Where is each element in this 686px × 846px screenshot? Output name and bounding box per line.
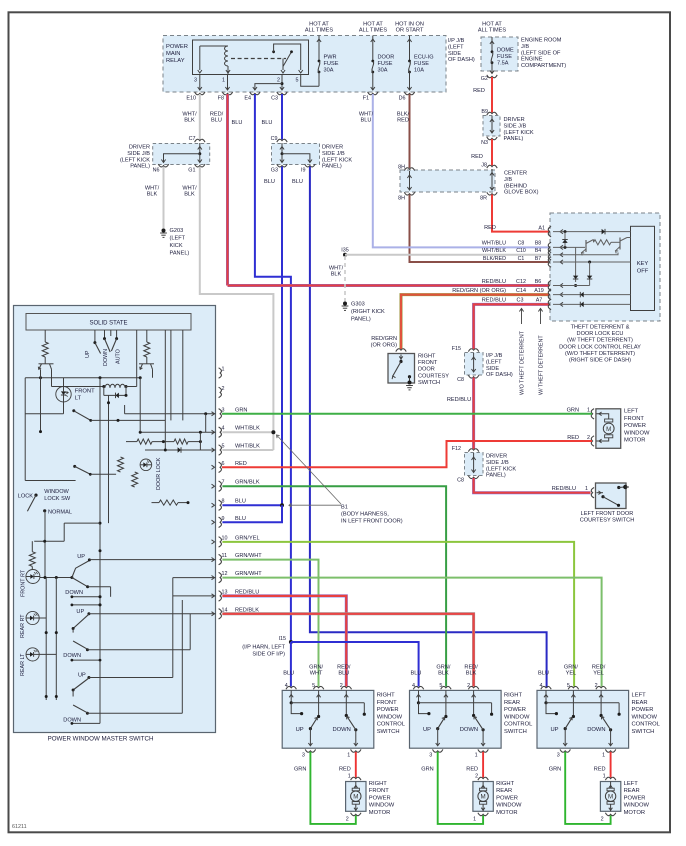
node I35 and WHT/BLK to theft deterrent B4 [341,247,551,256]
svg-text:DRIVER: DRIVER [129,145,150,151]
svg-text:A19: A19 [534,288,544,294]
connector F1 [363,92,378,102]
wire BLU I9 down to left rear switch [292,167,547,689]
svg-text:FUSE: FUSE [324,61,339,67]
transistor Q2 [139,364,154,378]
engine room J/B box [481,37,566,71]
svg-text:DOOR LOCK CONTROL RELAY: DOOR LOCK CONTROL RELAY [559,344,641,350]
svg-text:1: 1 [602,753,605,759]
svg-text:RED/GRN (OR ORG): RED/GRN (OR ORG) [452,288,506,294]
svg-text:RELAY: RELAY [166,58,185,64]
svg-text:BLK: BLK [466,671,477,677]
svg-text:UP: UP [423,727,431,733]
window lock switch upper contact [73,465,116,476]
svg-text:2: 2 [340,683,343,689]
bus x108 [107,395,110,523]
driver side J/B box left [120,143,210,170]
connector 8R [480,192,497,201]
left rear power window control switch [537,664,661,758]
svg-text:WINDOW: WINDOW [44,489,69,495]
svg-text:RED/BLU: RED/BLU [552,486,576,492]
resistor R8 [29,552,35,570]
svg-text:POWER: POWER [624,423,646,429]
svg-text:ALL TIMES: ALL TIMES [478,28,507,34]
svg-text:RED/BLU: RED/BLU [447,397,471,403]
svg-text:2: 2 [277,78,280,84]
svg-text:A1: A1 [538,226,545,232]
wire WHT/BLK G1 to master switch pins 4 and 5 [182,167,273,451]
solid state module box [26,314,191,331]
svg-text:ALL TIMES: ALL TIMES [359,28,388,34]
svg-text:CENTER: CENTER [504,171,527,177]
wire lock bus [32,523,100,552]
driver side J/B box F12 [452,446,517,484]
svg-text:NORMAL: NORMAL [48,510,72,516]
resistor R5 [118,457,124,472]
switch DOWN (auto group) [103,337,110,366]
I/P J/B (left side of dash) junction block box [163,36,475,93]
connector F8 [218,92,233,102]
right front power window control switch [282,664,406,758]
svg-text:YEL: YEL [566,671,577,677]
master switch pin 9 connector [212,516,225,528]
wire RED right rear switch to motor [466,752,483,778]
svg-text:1: 1 [348,774,351,780]
svg-text:RED/BLU: RED/BLU [482,298,506,304]
wire WHT/BLK N6 to ground G203 [145,167,164,229]
relay pin wires to connectors [198,75,319,91]
master pin 12 internal row [173,577,216,579]
svg-text:ENGINE: ENGINE [521,57,543,63]
svg-text:MOTOR: MOTOR [624,810,645,816]
indicator FRONT LT [25,378,95,414]
theft ECU row A1 internals [548,226,630,236]
svg-text:SIDE OF I/P): SIDE OF I/P) [252,652,285,658]
wire GRN left rear switch to motor [549,752,611,824]
svg-text:LEFT: LEFT [624,409,639,415]
svg-text:BLK: BLK [438,671,449,677]
svg-text:RED: RED [235,461,247,467]
svg-text:COURTESY: COURTESY [418,373,449,379]
right rear power window motor [473,774,522,823]
svg-text:RED: RED [397,118,409,124]
driver side J/B box right [483,116,534,143]
right front door courtesy switch [371,336,450,390]
svg-text:1: 1 [603,774,606,780]
svg-text:BLK/: BLK/ [397,112,410,118]
svg-text:GRN/WHT: GRN/WHT [235,553,262,559]
svg-text:RIGHT: RIGHT [377,693,395,699]
svg-text:2: 2 [595,683,598,689]
svg-text:FRONT RT: FRONT RT [21,569,27,597]
svg-text:F12: F12 [452,446,461,452]
svg-text:BLU: BLU [283,671,294,677]
wire GRN/WHT master pin 11 to right front switch pin 5 [222,560,318,687]
svg-text:5: 5 [296,78,299,84]
wire WHT/BLK I35 to ground G303 (dashed) [329,256,345,302]
svg-text:RED: RED [471,154,483,160]
fuse DOOR 30A [371,36,395,91]
svg-text:I/P J/B: I/P J/B [486,353,503,359]
svg-text:I9: I9 [301,168,306,174]
hot in on or start label [395,22,424,34]
svg-text:FRONT: FRONT [75,389,95,395]
svg-text:BLU: BLU [292,179,303,185]
svg-text:UP: UP [296,727,304,733]
svg-text:GRN: GRN [235,407,247,413]
svg-text:(RIGHT KICK: (RIGHT KICK [351,309,385,315]
svg-text:(LEFT KICK: (LEFT KICK [504,130,534,136]
svg-text:C14: C14 [516,288,526,294]
svg-text:COMPARTMENT): COMPARTMENT) [521,63,566,69]
svg-text:REAR: REAR [504,700,520,706]
switch UP front-rt [72,554,216,578]
svg-text:W/ THEFT DETERRENT: W/ THEFT DETERRENT [539,335,545,395]
connector E4 [244,92,260,102]
svg-text:C7: C7 [189,136,196,142]
svg-text:WINDOW: WINDOW [369,803,395,809]
svg-text:B8: B8 [535,241,541,247]
wire RED master pin6 to left front motor [222,441,592,467]
svg-text:HOT IN ON: HOT IN ON [395,22,424,28]
svg-text:2: 2 [346,817,349,823]
indicator DOOR LOCK [140,457,162,490]
svg-text:RED/: RED/ [464,664,478,670]
transistor Q1 [38,364,104,387]
svg-text:PANEL): PANEL) [486,473,506,479]
connector J8 [481,163,497,169]
resistor R1 [42,342,48,364]
theft ECU row B7 internals [548,257,630,267]
arrow w/ theft deterrent [538,309,544,396]
svg-text:3: 3 [429,753,432,759]
connector C9 [271,136,288,142]
svg-text:C8: C8 [457,478,464,484]
connector C7 [189,136,205,142]
svg-text:YEL: YEL [593,671,604,677]
svg-text:5: 5 [222,444,225,450]
indicator common row [40,576,74,700]
svg-text:FUSE: FUSE [378,61,393,67]
theft ECU row A7 internals [548,299,630,309]
svg-text:D6: D6 [399,96,406,102]
master pin 4 internal row [139,378,216,434]
svg-text:B7: B7 [535,256,541,262]
left front door courtesy switch [580,483,635,524]
svg-text:RED/BLU: RED/BLU [482,279,506,285]
svg-text:30A: 30A [324,67,334,73]
connector G2 [481,75,497,82]
relay pin numbers [194,78,299,84]
theft ECU row B4 internals [548,250,618,260]
svg-text:1: 1 [222,78,225,84]
switch AUTO [111,337,121,364]
wire RED/BLU theft deterrent A7 to IP J/B F15 [474,298,549,350]
left bus [25,378,75,481]
svg-text:GRN: GRN [421,767,433,773]
svg-text:POWER: POWER [496,795,518,801]
indicator FRONT RT [21,569,40,597]
svg-text:WINDOW: WINDOW [624,803,650,809]
svg-text:B6: B6 [535,279,542,285]
svg-text:OF DASH): OF DASH) [448,57,475,63]
hot at all times label 3 [478,22,507,34]
svg-text:OR START: OR START [396,28,424,34]
svg-text:BLK: BLK [331,272,342,278]
svg-text:1: 1 [587,408,590,414]
master switch pin 8 connector [212,499,225,511]
wire RED/BLK master pin 14 to right rear switch pin 2 [222,614,473,687]
svg-text:WHT/BLK: WHT/BLK [482,248,506,254]
svg-text:SWITCH: SWITCH [418,380,440,386]
svg-text:LT: LT [75,396,82,402]
theft diodes down [573,247,592,287]
resistor R6 [132,472,138,487]
svg-text:CONTROL: CONTROL [377,722,406,728]
svg-text:RED: RED [466,767,478,773]
svg-text:GRN: GRN [567,408,579,414]
resistor R7 [152,500,190,505]
svg-text:B1: B1 [341,505,348,511]
master switch pin 3 connector [212,407,225,419]
master switch pin 11 connector [212,553,228,565]
svg-text:SIDE J/B: SIDE J/B [127,151,150,157]
master switch pin 10 connector [212,535,228,547]
svg-text:G203: G203 [170,228,184,234]
master switch pin 2 connector [219,386,225,398]
wire BLK/RED D6 down [397,94,410,168]
svg-text:FUSE: FUSE [414,61,429,67]
svg-text:KEY: KEY [637,261,649,267]
svg-text:WHT/BLU: WHT/BLU [482,241,506,247]
svg-text:DOWN: DOWN [103,349,109,366]
svg-text:2: 2 [467,683,470,689]
svg-text:THEFT DETERRENT &: THEFT DETERRENT & [571,325,630,331]
svg-text:C9: C9 [271,136,278,142]
svg-text:(W/O THEFT DETERRENT): (W/O THEFT DETERRENT) [565,351,635,357]
svg-text:W/O THEFT DETERRENT: W/O THEFT DETERRENT [520,330,526,395]
svg-text:(BEHIND: (BEHIND [504,183,527,189]
svg-text:2: 2 [601,817,604,823]
svg-text:REAR RT: REAR RT [20,614,26,638]
svg-text:LEFT: LEFT [624,781,639,787]
svg-text:DRIVER: DRIVER [504,117,525,123]
ground G303 [342,302,385,323]
svg-text:LEFT: LEFT [632,693,647,699]
svg-text:DOWN: DOWN [65,590,83,596]
wire GRN master pin3 to left front motor [222,413,592,415]
svg-text:POWER: POWER [624,795,646,801]
svg-text:(LEFT: (LEFT [170,236,186,242]
svg-text:RIGHT: RIGHT [418,354,436,360]
wire RED 8R to theft deterrent A1 [484,195,551,232]
document number [12,824,27,830]
svg-text:WHT/: WHT/ [145,186,160,192]
svg-text:(LEFT SIDE OF: (LEFT SIDE OF [521,50,561,56]
svg-text:1: 1 [347,753,350,759]
left front power window motor [567,408,650,449]
wire WHT/BLK master pin 4 [222,430,275,434]
svg-text:M: M [481,794,486,801]
svg-text:SIDE J/B: SIDE J/B [322,151,345,157]
fuse DOME 7.5A [490,37,514,74]
svg-text:I35: I35 [341,247,349,253]
svg-text:FRONT: FRONT [418,360,438,366]
svg-text:BLK: BLK [184,192,195,198]
wire RED/BLU F8 down [210,94,228,286]
svg-text:SIDE J/B: SIDE J/B [486,460,509,466]
svg-text:8H: 8H [398,196,405,202]
svg-text:GRN/WHT: GRN/WHT [235,571,262,577]
wire through center J/B left [407,171,411,190]
connector D6 [399,92,415,102]
svg-text:3: 3 [557,753,560,759]
svg-text:POWER WINDOW MASTER SWITCH: POWER WINDOW MASTER SWITCH [48,736,154,743]
master switch pin 5 connector [212,444,225,456]
svg-text:REAR: REAR [496,788,512,794]
window lock switch [18,489,72,578]
svg-text:ECU-IG: ECU-IG [414,55,434,61]
svg-text:POWER: POWER [369,795,391,801]
svg-text:PWR: PWR [324,55,337,61]
svg-text:N3: N3 [481,140,488,146]
svg-text:C12: C12 [516,279,526,285]
master pin 5 internal row [145,447,216,452]
connector C3 [271,92,287,102]
svg-text:HOT AT: HOT AT [363,22,383,28]
connector 8H bottom [398,192,415,201]
svg-text:UP: UP [78,673,86,679]
svg-text:11: 11 [222,553,228,559]
svg-text:I/P J/B: I/P J/B [448,38,465,44]
master switch pin 4 connector [212,426,225,438]
svg-text:LEFT FRONT DOOR: LEFT FRONT DOOR [581,511,634,517]
svg-text:7.5A: 7.5A [497,60,509,66]
svg-text:WHT/BLK: WHT/BLK [235,426,260,432]
svg-text:WINDOW: WINDOW [496,803,522,809]
svg-text:E10: E10 [186,96,196,102]
wire through center J/B right [490,169,494,190]
svg-text:UP: UP [76,609,84,615]
svg-text:B4: B4 [535,248,541,254]
svg-text:ENGINE ROOM: ENGINE ROOM [521,38,562,44]
svg-text:M: M [353,794,358,801]
wire GRN/BLK master pin 7 to right rear switch pin 5 [222,486,446,686]
svg-text:FRONT: FRONT [369,788,389,794]
svg-text:FRONT: FRONT [624,416,644,422]
wire BLU master pin 9 [222,505,282,522]
svg-text:KICK: KICK [170,243,183,249]
svg-text:1: 1 [585,486,588,492]
IP J/B box F15 [452,346,513,383]
master switch pin 1 connector [219,367,225,379]
KEY OFF box [631,226,655,310]
wire RED N3 to J8 [471,139,492,166]
svg-text:CONTROL: CONTROL [632,722,661,728]
svg-text:PANEL): PANEL) [170,251,190,257]
wire BLK/RED 8H to theft deterrent B7 [410,195,552,263]
switch UP rear-rt [72,609,216,633]
svg-text:MAIN: MAIN [166,51,181,57]
wire GRN/YEL master pin 10 to left rear switch pin 5 [222,542,574,687]
center bus x100 [99,378,102,724]
svg-text:8H: 8H [398,165,405,171]
svg-text:SIDE: SIDE [448,51,461,57]
svg-text:BLU: BLU [211,118,222,124]
connector B9 [481,109,497,115]
svg-text:(RIGHT SIDE OF DASH): (RIGHT SIDE OF DASH) [569,358,631,364]
wire RED/BLU F8 to theft deterrent B6 [228,279,550,286]
svg-text:GRN/: GRN/ [309,664,323,670]
svg-text:8R: 8R [480,196,487,202]
svg-text:J/B: J/B [504,177,512,183]
svg-text:REAR: REAR [624,788,640,794]
svg-text:PANEL): PANEL) [322,164,342,170]
wire WHT/BLK E10 down [182,94,199,141]
master pin 3 internal row [125,405,216,432]
svg-text:RIGHT: RIGHT [496,781,514,787]
svg-text:1: 1 [473,817,476,823]
svg-text:SIDE J/B: SIDE J/B [504,123,527,129]
svg-text:F8: F8 [218,96,224,102]
svg-text:BLU: BLU [411,671,422,677]
svg-text:F15: F15 [452,346,461,352]
svg-text:DOWN: DOWN [332,727,350,733]
svg-text:GLOVE BOX): GLOVE BOX) [504,190,539,196]
label WHT/BLU row [482,241,542,247]
master switch pin 14 connector [212,607,228,619]
svg-text:WHT/: WHT/ [329,266,344,272]
connector N3 [481,137,497,146]
svg-text:(W/ THEFT DETERRENT): (W/ THEFT DETERRENT) [567,338,633,344]
resistor theft R [594,240,621,245]
svg-text:WHT/: WHT/ [182,186,197,192]
relay coil K1 with diode [102,384,136,398]
right front power window motor [346,774,395,823]
svg-text:4: 4 [285,683,288,689]
fuse PWR 30A [317,36,339,87]
svg-text:RED: RED [594,767,606,773]
svg-text:RIGHT: RIGHT [504,693,522,699]
connector G3 [271,164,287,173]
wire RED/BLU C8 to F12 [447,378,474,450]
theft ECU row B8 internals [548,232,585,253]
master switch pin 7 connector [212,480,225,492]
svg-text:1: 1 [475,753,478,759]
svg-text:IN LEFT FRONT DOOR): IN LEFT FRONT DOOR) [341,519,403,525]
svg-text:UP: UP [550,727,558,733]
wire RED/GRN (OR ORG) theft deterrent A19 to courtesy switch [401,288,549,349]
switch UP (auto group) [85,341,101,358]
svg-text:B9: B9 [481,109,488,115]
svg-text:WHT: WHT [310,671,323,677]
svg-text:MOTOR: MOTOR [369,810,390,816]
svg-text:(LEFT KICK: (LEFT KICK [486,466,516,472]
svg-text:9: 9 [222,516,225,522]
master switch pin 6 connector [212,461,225,473]
fuse ECU-IG 10A [407,36,433,91]
wire BLU C3 down [262,94,282,140]
svg-text:(LEFT KICK: (LEFT KICK [322,157,352,163]
svg-text:SOLID STATE: SOLID STATE [89,321,127,327]
hot at all times label 2 [359,22,388,34]
theft deterrent / door lock ECU box [550,213,660,321]
svg-text:GRN/YEL: GRN/YEL [235,535,260,541]
right rear power window control switch [410,664,534,758]
svg-text:POWER: POWER [166,44,188,50]
switch DOWN rear-rt [63,614,190,662]
svg-text:DRIVER: DRIVER [322,145,343,151]
